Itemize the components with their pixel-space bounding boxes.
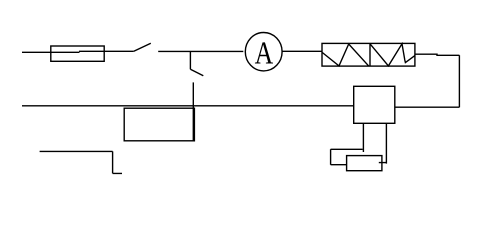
switch S2 blade xyxy=(190,69,203,76)
relay coil box K1a xyxy=(124,108,194,141)
relay K1 box xyxy=(354,86,395,123)
wire relay right pin down xyxy=(379,123,387,163)
wire switch to ammeter xyxy=(158,50,243,52)
wire relay left pin down xyxy=(362,123,364,152)
wire stub bottom left xyxy=(40,151,122,173)
ammeter A1 circle xyxy=(245,33,282,71)
wire left lead through fuse xyxy=(22,51,134,52)
resistor R1 zigzag right xyxy=(370,44,415,66)
switch S1 blade xyxy=(134,43,151,51)
ammeter label A xyxy=(255,42,273,63)
resistor R1 heating element box xyxy=(322,43,415,66)
fuse F1 xyxy=(51,46,104,61)
wire jog to motor left xyxy=(331,149,363,164)
wire ammeter to heater xyxy=(282,50,322,52)
node junction drop at top bus xyxy=(189,51,191,69)
motor M1 box xyxy=(347,156,382,171)
wire neutral bus xyxy=(22,105,354,107)
wire vertical drop to coil box xyxy=(192,82,194,140)
resistor R1 zigzag left xyxy=(322,44,368,66)
wire heater to right rail xyxy=(395,54,460,107)
